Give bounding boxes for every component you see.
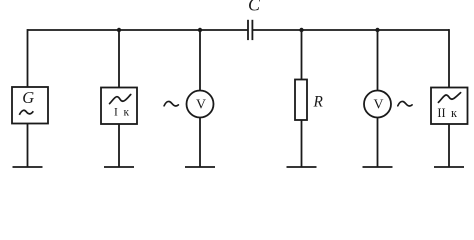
ground bar 1 — [13, 166, 43, 168]
generator G — [12, 87, 48, 124]
ground bar 5 — [363, 166, 393, 168]
node junction 4 — [375, 28, 379, 32]
svg-text:V: V — [374, 96, 384, 111]
capacitor C — [248, 20, 252, 40]
node junction 2 — [198, 28, 202, 32]
svg-text:R: R — [313, 94, 324, 111]
oscilloscope channel II box — [431, 88, 468, 125]
ac tilde left of voltmeter V1 — [164, 101, 178, 106]
svg-text:IIк: IIк — [437, 106, 457, 120]
wire branch 2 upper — [118, 30, 120, 88]
wire left branch upper — [27, 29, 29, 87]
oscilloscope channel I box — [101, 88, 137, 125]
svg-text:C: C — [248, 0, 261, 15]
svg-text:V: V — [196, 96, 206, 111]
ground bar 3 — [185, 166, 215, 168]
wire left branch lower — [27, 124, 29, 168]
wire branch 4 upper — [301, 30, 303, 80]
ac tilde right of voltmeter V2 — [398, 101, 412, 106]
ground bar 6 — [434, 166, 464, 168]
wire right branch upper — [448, 29, 450, 87]
wire branch 2 lower — [118, 124, 120, 167]
svg-text:Iк: Iк — [114, 107, 129, 119]
wire branch 3 lower — [199, 118, 201, 168]
wire branch 5 upper — [377, 30, 379, 91]
wire branch 4 lower — [301, 120, 303, 167]
wire branch 3 upper — [199, 30, 201, 91]
resistor R — [295, 80, 324, 121]
voltmeter V2 — [364, 91, 391, 118]
wire top bus left of capacitor — [28, 29, 249, 31]
wire right branch lower — [448, 124, 450, 167]
svg-text:G: G — [22, 88, 34, 107]
node junction 3 — [299, 28, 303, 32]
wire branch 5 lower — [377, 118, 379, 168]
voltmeter V1 — [187, 91, 214, 118]
node junction 1 — [117, 28, 121, 32]
ground bar 4 — [287, 166, 317, 168]
ground bar 2 — [104, 166, 134, 168]
wire top bus right of capacitor — [252, 29, 449, 31]
